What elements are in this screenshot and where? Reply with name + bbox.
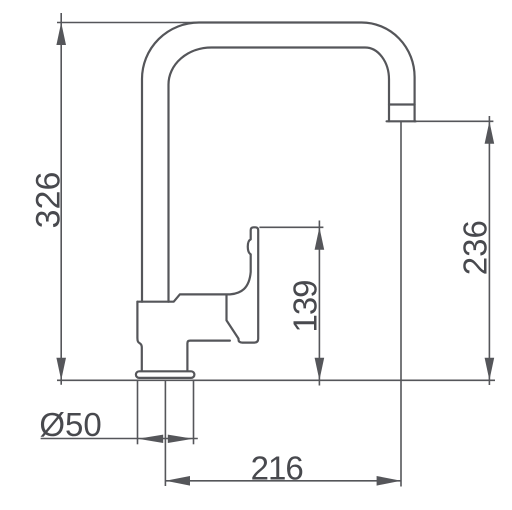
svg-text:139: 139: [286, 280, 323, 332]
svg-text:Ø50: Ø50: [39, 406, 101, 443]
svg-text:216: 216: [251, 449, 303, 486]
svg-text:236: 236: [456, 220, 493, 275]
svg-text:326: 326: [30, 172, 68, 229]
